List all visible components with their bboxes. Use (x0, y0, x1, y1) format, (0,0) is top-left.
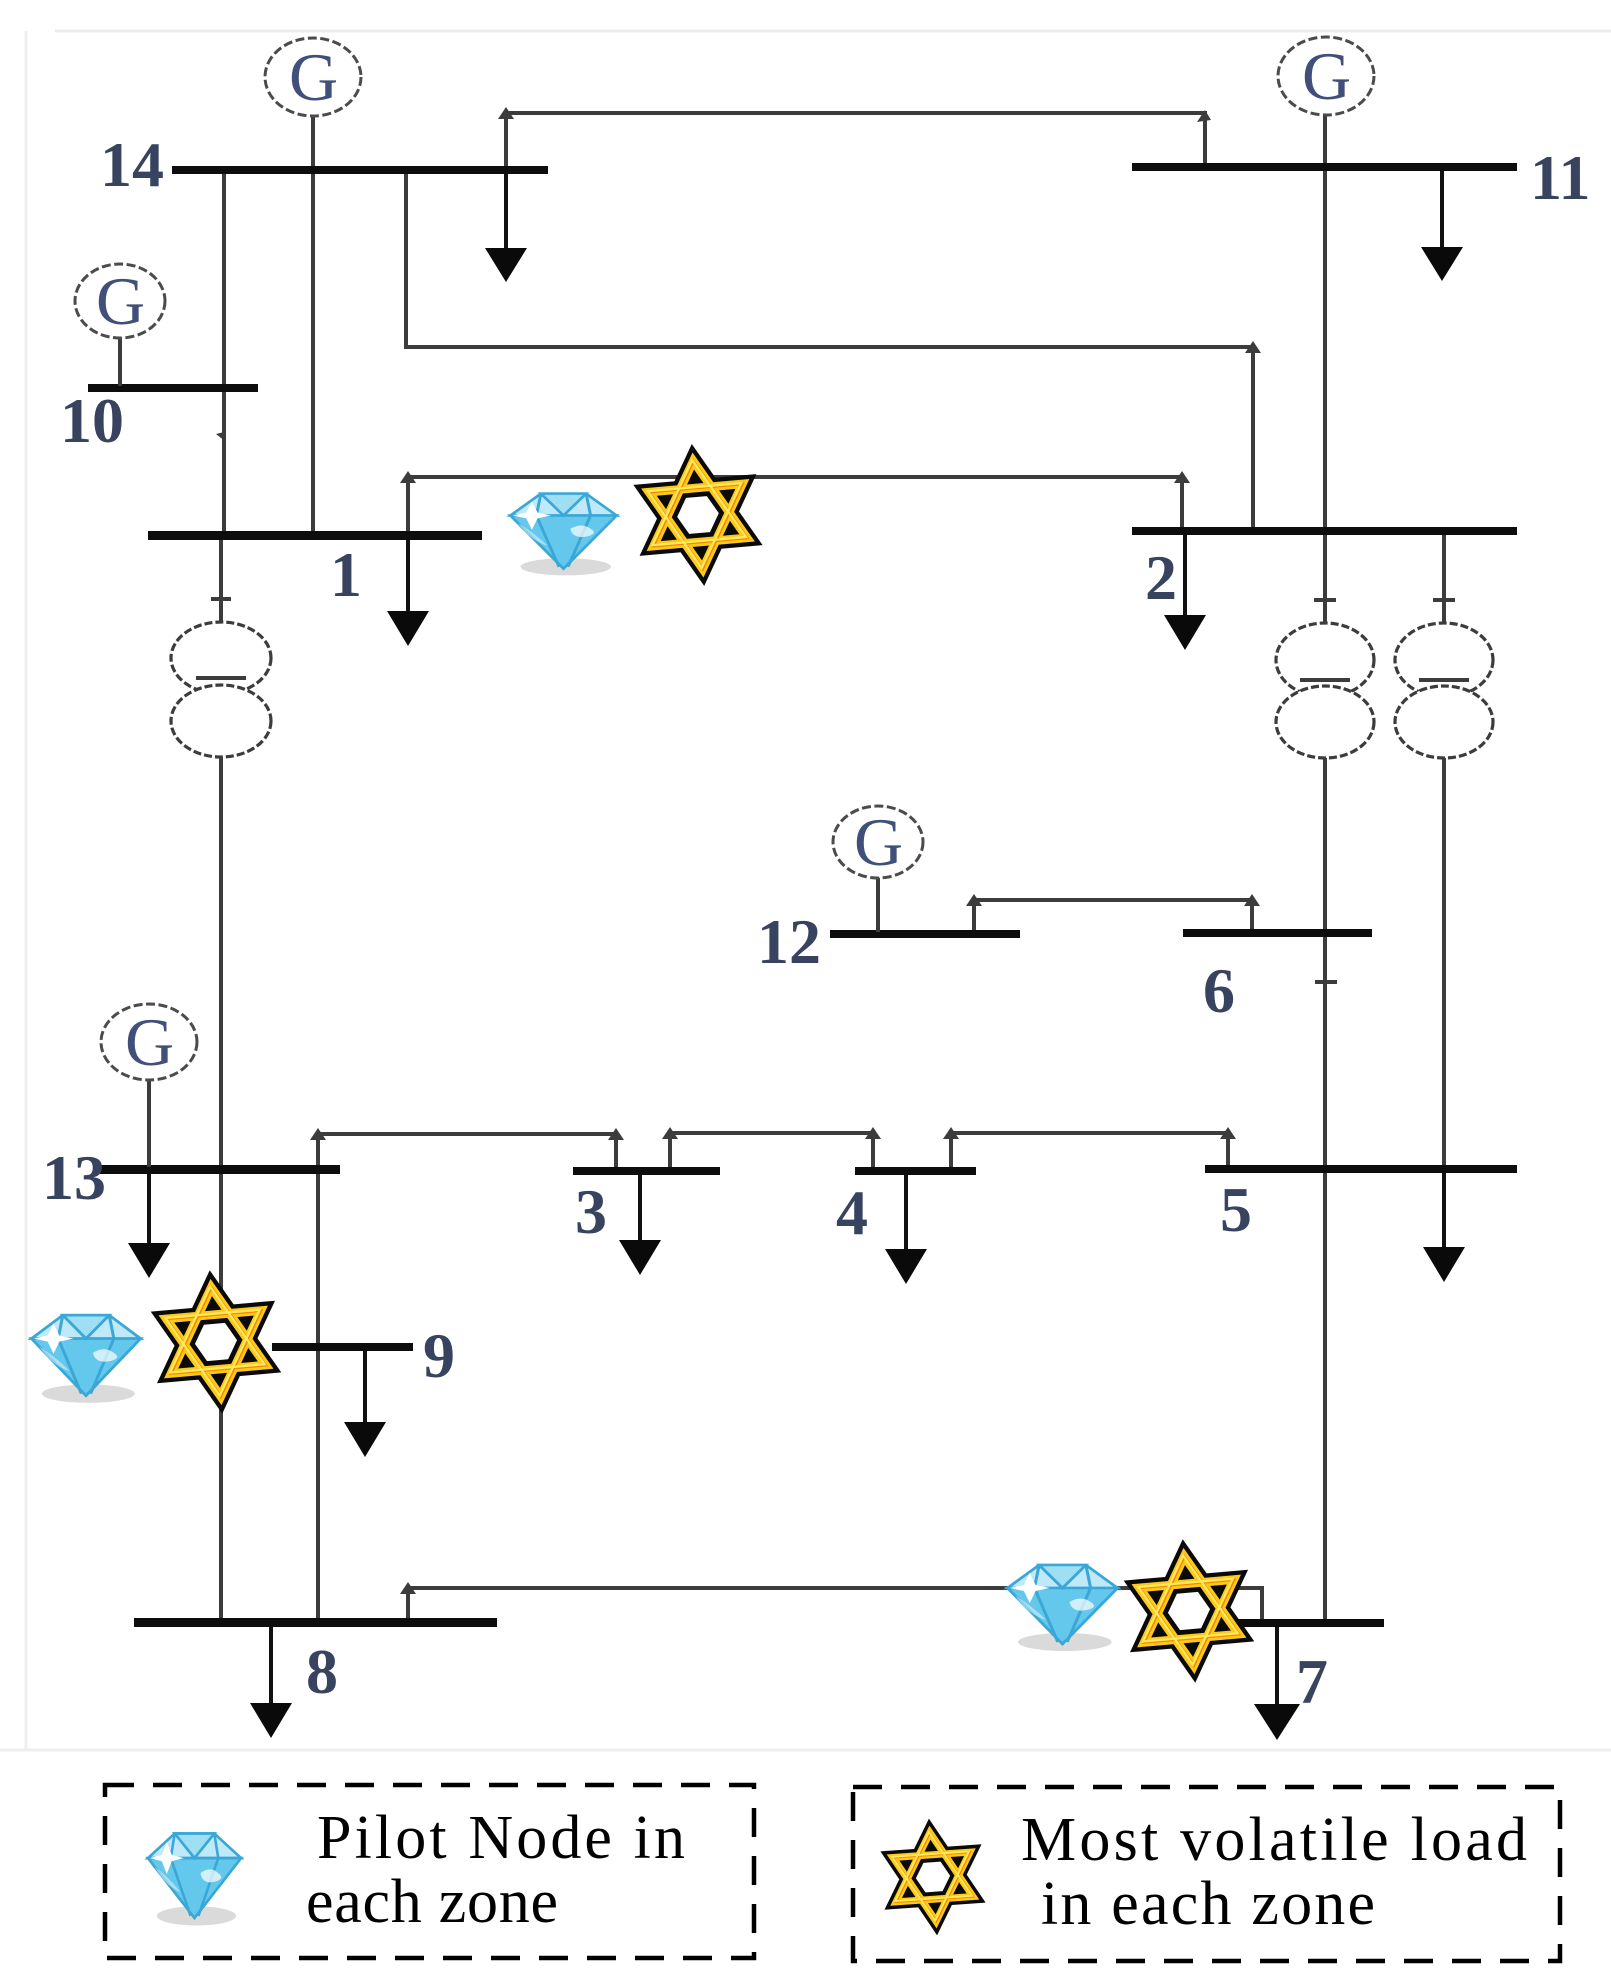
bus 5 (1205, 1165, 1517, 1173)
wire bus11 to bus2 (1323, 169, 1327, 530)
svg-text:13: 13 (42, 1142, 106, 1213)
tick above T3 (1433, 598, 1455, 602)
wire G11 stem (1323, 112, 1327, 166)
wire bus14 to bus11 top line (498, 107, 1211, 170)
generator G at bus 10 (75, 263, 165, 386)
transformer T2 (1276, 623, 1374, 758)
svg-text:11: 11 (1530, 142, 1590, 213)
wire bus8 to bus7 (400, 1582, 1262, 1621)
bus 3 (573, 1167, 720, 1175)
svg-text:G: G (854, 804, 903, 880)
svg-text:6: 6 (1203, 955, 1235, 1026)
wire bus1 to bus2 (400, 471, 1190, 533)
bus 2 (1132, 527, 1517, 535)
bus 11 (1132, 163, 1517, 171)
svg-text:14: 14 (100, 129, 164, 200)
transformer T1 (171, 622, 271, 757)
svg-text:G: G (125, 1004, 174, 1080)
load arrow at bus 8 (250, 1627, 292, 1738)
bus 9 (272, 1343, 413, 1351)
pilot node gem at bus 13 (31, 1315, 140, 1403)
wire bus3 to bus4 (662, 1127, 881, 1169)
bus 1 (148, 531, 482, 540)
generator G at bus 12 (833, 804, 923, 932)
wire bus2 to T2 (1323, 533, 1327, 625)
svg-text:G: G (1302, 38, 1351, 114)
bus 10 (88, 384, 258, 392)
bus 7 (1150, 1619, 1384, 1627)
svg-text:Most volatile load: Most volatile load (1021, 1806, 1527, 1874)
volatile load star at bus 7 (1136, 1551, 1241, 1669)
pilot node gem at bus 1 (510, 494, 616, 576)
legend box volatile load (853, 1787, 1560, 1961)
wire bus1 to transformer T1 (219, 537, 223, 624)
wire bus14 to bus2 (406, 172, 1261, 530)
bus 12 (830, 930, 1020, 938)
load arrow at bus 14 (485, 174, 527, 282)
svg-text:2: 2 (1145, 542, 1177, 613)
bus 13 (100, 1165, 340, 1174)
svg-text:12: 12 (757, 906, 821, 977)
svg-text:1: 1 (330, 539, 362, 610)
junction tick on wire (216, 432, 226, 442)
generator G at bus 11 (1278, 37, 1374, 115)
load arrow at bus 2 (1164, 535, 1206, 650)
load arrow at bus 5 (1423, 1173, 1465, 1282)
load arrow at bus 3 (619, 1175, 661, 1275)
load arrow at bus 4 (885, 1175, 927, 1284)
wire T1 bottom to bus8 through bus13 (219, 755, 223, 1620)
load arrow at bus 11 (1421, 171, 1463, 281)
svg-text:8: 8 (306, 1636, 338, 1707)
svg-text:10: 10 (60, 385, 124, 456)
wire T2 bottom to bus7 through bus6 bus5 (1323, 756, 1327, 1621)
tick above T2 (1314, 598, 1336, 602)
legend gem icon (148, 1833, 241, 1925)
load arrow at bus 9 (344, 1351, 386, 1457)
bus 8 (134, 1618, 497, 1627)
svg-text:9: 9 (423, 1320, 455, 1391)
svg-text:in each zone: in each zone (1041, 1870, 1375, 1938)
generator G at bus 14 (265, 38, 361, 116)
tick below bus6 (1315, 980, 1337, 984)
volatile load star at bus 1 (645, 456, 749, 573)
svg-text:Pilot Node in: Pilot Node in (317, 1804, 685, 1872)
wire bus14 to bus1 left (222, 172, 226, 533)
bus 14 (172, 166, 548, 174)
load arrow at bus 7 (1254, 1627, 1300, 1740)
wire bus12 to bus6 (966, 894, 1260, 932)
legend box pilot node (105, 1785, 754, 1958)
svg-text:each zone: each zone (306, 1868, 558, 1936)
svg-text:G: G (289, 39, 338, 115)
bus 6 (1183, 929, 1372, 937)
legend star icon (891, 1829, 975, 1924)
wire bus2 to T3 (1442, 533, 1446, 625)
svg-text:3: 3 (575, 1176, 607, 1247)
svg-text:G: G (96, 263, 145, 339)
load arrow at bus 13 (128, 1174, 170, 1278)
svg-text:5: 5 (1220, 1174, 1252, 1245)
tick above T1 (211, 597, 231, 601)
wire T3 bottom to bus5 (1442, 756, 1446, 1167)
wire G14 through bus14 to bus1 (311, 115, 315, 533)
generator G at bus 13 (101, 1004, 197, 1167)
transformer T3 (1395, 623, 1493, 758)
wire bus13 to bus3 and down to bus8 (310, 1128, 624, 1620)
pilot node gem at bus 7 (1008, 1565, 1118, 1651)
wire bus4 to bus5 (943, 1127, 1236, 1169)
bus 4 (855, 1167, 976, 1175)
volatile load star at bus 13 (163, 1282, 268, 1400)
svg-text:4: 4 (836, 1177, 868, 1248)
load arrow at bus 1 (387, 540, 429, 646)
svg-text:7: 7 (1296, 1646, 1328, 1717)
